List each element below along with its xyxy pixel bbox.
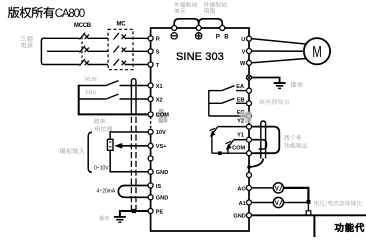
terminal X1 — [148, 83, 153, 88]
svg-text:X1: X1 — [156, 84, 163, 90]
svg-text:EA: EA — [236, 84, 244, 90]
relay common vertical to EC — [208, 90, 210, 116]
label 频率电位器 — [94, 118, 106, 124]
motor M — [304, 38, 330, 64]
svg-text:V: V — [275, 201, 279, 207]
label 接地 left — [99, 216, 109, 221]
label 接地 right — [291, 82, 303, 88]
svg-text:W: W — [240, 61, 246, 67]
terminal VS+ — [148, 143, 153, 148]
terminal GND — [148, 169, 153, 174]
terminal PE — [148, 209, 153, 214]
terminal Y2 — [247, 124, 252, 129]
current loop 4-20mA — [118, 186, 148, 198]
svg-text:Y2: Y2 — [237, 118, 244, 124]
terminal IS — [148, 183, 153, 188]
three-phase source bracket — [41, 38, 46, 64]
symbol minus — [171, 33, 177, 39]
wire EC — [209, 115, 247, 117]
shield capsule right — [261, 121, 266, 159]
svg-text:EB: EB — [237, 97, 245, 103]
earth terminal cross — [247, 76, 251, 80]
terminal PB on top edge — [220, 26, 225, 31]
relay contact EA — [209, 90, 222, 92]
wire GND right — [251, 214, 366, 216]
left terminals — [148, 36, 153, 214]
function table box — [313, 215, 315, 237]
wire U to motor — [251, 39, 308, 45]
svg-text:COM: COM — [156, 113, 169, 119]
svg-text:X2: X2 — [156, 97, 163, 103]
earth ground symbol left — [114, 216, 126, 218]
terminal U — [247, 36, 252, 41]
wire AO with meter — [251, 187, 273, 189]
hook Y1 external — [251, 140, 266, 149]
switch RUN — [79, 85, 106, 87]
svg-text:AO: AO — [237, 186, 246, 192]
terminal R — [148, 36, 153, 41]
wire PE to earth — [120, 211, 148, 216]
svg-text:T: T — [156, 63, 160, 69]
junction AO-AI — [307, 200, 311, 204]
svg-text:CA800: CA800 — [55, 8, 85, 20]
terminal AI — [247, 200, 252, 205]
svg-text:V: V — [275, 186, 279, 192]
terminal minus on top edge — [172, 26, 177, 31]
svg-text:IS: IS — [156, 184, 162, 190]
shield drain dashed wires — [130, 108, 132, 211]
terminal EB — [247, 101, 252, 106]
open collector Y1 — [234, 139, 247, 141]
svg-text:A1: A1 — [239, 201, 246, 207]
svg-text:MCCB: MCCB — [74, 23, 92, 29]
rail junction — [218, 151, 222, 155]
label 外接制动单元 — [174, 2, 197, 7]
terminal COM2 — [247, 151, 252, 156]
terminal W — [247, 60, 252, 65]
label 继电器输出 — [259, 99, 289, 105]
svg-text:GND: GND — [156, 170, 168, 176]
shield to PE junction — [132, 209, 136, 213]
earth ground symbol right — [274, 82, 286, 84]
terminal spare2 — [247, 173, 252, 178]
selector square on GND wire — [306, 211, 311, 215]
braking jumper arc 1 — [174, 19, 199, 27]
label 三相电源 — [21, 36, 32, 42]
potentiometer wiper wire with arrow — [122, 145, 149, 147]
terminal V — [247, 49, 252, 54]
terminal T — [148, 62, 153, 67]
wire V to motor — [251, 50, 304, 52]
svg-text:M: M — [312, 44, 322, 61]
label 两个多功能输出 — [284, 135, 301, 140]
right terminal labels — [232, 37, 246, 220]
copyright text CA800 — [8, 7, 55, 18]
wire W to motor — [251, 58, 308, 62]
terminal COM — [148, 112, 153, 117]
svg-text:GND: GND — [233, 214, 245, 220]
svg-text:V: V — [242, 49, 246, 55]
svg-text:MC: MC — [117, 22, 127, 28]
svg-text:S: S — [156, 50, 160, 56]
wire AI with meter — [251, 202, 273, 204]
svg-text:RUN: RUN — [85, 77, 97, 83]
contactor MC pole 2 — [114, 46, 149, 53]
breaker MCCB pole 3 — [80, 59, 109, 66]
terminal 10V — [148, 129, 153, 134]
watermark over COM — [159, 109, 164, 123]
symbol plus — [196, 33, 202, 39]
svg-text:FRS: FRS — [86, 91, 97, 97]
svg-text:PE: PE — [156, 209, 164, 215]
wire digital common vertical — [78, 85, 80, 115]
wire to COM terminal — [78, 113, 148, 115]
shield drain curve — [251, 159, 264, 167]
terminal S — [148, 49, 153, 54]
relay contact EB — [209, 102, 222, 104]
contactor MC pole 3 — [114, 59, 149, 66]
contactor MC dashed box — [108, 29, 133, 69]
svg-text:SINE 303: SINE 303 — [176, 51, 224, 63]
svg-text:P B: P B — [216, 34, 230, 41]
label 模拟输入 — [60, 148, 85, 154]
terminal EC — [247, 114, 252, 119]
wire phase T to MCCB — [46, 64, 80, 66]
svg-text:0~10V: 0~10V — [94, 165, 109, 171]
wire phase S to MCCB — [47, 50, 80, 52]
contactor MC pole 1 — [114, 33, 149, 40]
loop Y2 to COM external — [251, 127, 279, 154]
open collector Y2 — [218, 126, 247, 128]
terminal EA — [247, 88, 252, 93]
analog group bracket — [88, 132, 92, 172]
watermark over EC — [240, 112, 252, 119]
breaker MCCB pole 2 — [80, 46, 109, 53]
potentiometer body — [107, 139, 113, 150]
wire pot bottom to GND — [109, 150, 111, 171]
inverter box dashed edge segment below COM — [150, 117, 152, 131]
terminal plus on top edge — [196, 26, 201, 31]
svg-text:10V: 10V — [156, 130, 166, 136]
shield cap for control wires — [131, 79, 136, 108]
left terminal labels — [156, 37, 169, 216]
svg-text:4~20mA: 4~20mA — [97, 189, 116, 195]
terminal AO — [247, 185, 252, 190]
label 功能代 — [335, 223, 364, 232]
wire earth terminal to ground — [251, 78, 280, 83]
svg-text:R: R — [156, 37, 160, 43]
svg-text:VS+: VS+ — [156, 144, 167, 150]
terminal X2 — [148, 97, 153, 102]
terminal spare — [148, 156, 153, 161]
terminal earth — [247, 75, 252, 80]
label 电压/电流选择输出 — [314, 200, 361, 206]
wire 10V to pot — [110, 131, 149, 133]
terminal GND2 — [148, 195, 153, 200]
switch FRS — [79, 98, 106, 100]
breaker MCCB pole 1 — [80, 33, 109, 40]
right terminals — [247, 36, 252, 218]
label 外接制动电阻 — [204, 2, 227, 7]
braking jumper arc 2 — [199, 19, 223, 27]
open collector common rail — [212, 152, 246, 154]
breaker MCCB mechanical link — [81, 37, 83, 63]
svg-text:GND: GND — [156, 196, 168, 202]
terminal Y1 — [247, 137, 252, 142]
svg-text:U: U — [241, 37, 245, 43]
inverter box SINE 303 outline — [151, 28, 249, 231]
svg-text:COM: COM — [232, 145, 245, 151]
wire phase R to MCCB — [46, 37, 80, 39]
terminal GND3 — [247, 213, 252, 218]
svg-text:Y1: Y1 — [237, 133, 244, 139]
